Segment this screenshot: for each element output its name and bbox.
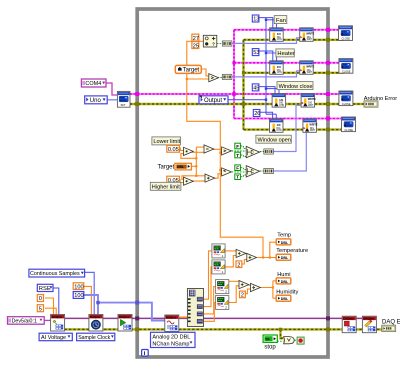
svg-text:26: 26 — [254, 111, 260, 117]
svg-text:5: 5 — [39, 306, 42, 312]
LINX set dig channel row1 — [270, 28, 284, 42]
tunnel: samples left wall — [135, 301, 139, 305]
junction: olive main tap — [242, 102, 246, 106]
LINX set dig channel row2 — [270, 61, 284, 75]
wire: continuous samples to timing (blue) — [85, 272, 95, 314]
junction: blue output net dots — [265, 19, 267, 21]
dig channel constant 45 — [252, 84, 259, 92]
tunnel: task left wall — [135, 316, 139, 320]
LINX set dig channel row4 — [270, 119, 284, 133]
wire: DAQmx task chain (purple) — [65, 317, 363, 319]
DAQmx read — [165, 315, 179, 332]
svg-text:DAQ Er: DAQ Er — [382, 319, 400, 325]
target control terminal — [175, 65, 201, 73]
wire: LINX resource main (magenta) — [130, 93, 341, 95]
tunnels: magenta right wall rows — [326, 28, 330, 121]
wire: temperature result to indicator (orange) — [258, 257, 277, 259]
less-than comparator — [209, 74, 219, 82]
wire: DAQ error chain bottom (olive) — [65, 328, 382, 330]
DAQmx timing — [89, 315, 103, 332]
wire: read 2d data to index array (orange) — [179, 316, 187, 318]
wire: humidity result (orange) — [260, 281, 276, 298]
sensor convert 1 — [212, 244, 225, 258]
dig channel constant 53 — [252, 49, 259, 57]
junction: orange dots on target net — [186, 78, 274, 289]
wire: constant 26 to dig4 (blue) — [260, 112, 273, 119]
combo AI Voltage — [39, 333, 72, 341]
wire: LINX error vertical distribution (olive) — [242, 40, 244, 130]
wire: select1 to bool3 (green) — [260, 151, 264, 153]
indicator DAQ Error — [382, 325, 396, 331]
wire: LINX error row4 (olive) — [244, 128, 347, 130]
svg-text:0: 0 — [39, 296, 42, 302]
DAQmx clear — [362, 316, 376, 333]
numeric constant 100 samples — [73, 292, 84, 300]
svg-text:Window open: Window open — [258, 137, 291, 143]
svg-text:RSE: RSE — [39, 286, 51, 292]
wire: F2 to select2 (green) — [241, 168, 247, 170]
LINX set dig channel row3 — [272, 94, 286, 108]
wire: 100 samples to timing and read (lavender) — [83, 295, 165, 321]
wire: target to multiply1 (orange) — [181, 154, 196, 159]
wire: LINX error main (olive) — [130, 103, 340, 105]
wire: temperature branch to compare3 (orange) — [220, 152, 221, 154]
add sensors 3+4 — [239, 281, 249, 289]
svg-text:Window close: Window close — [279, 84, 313, 90]
label Fan — [274, 16, 287, 24]
LINX write row1 — [300, 28, 315, 42]
wire: temperature feedback up to comparisons (orange) — [187, 41, 263, 257]
wire: LINX resource row4 window-open (magenta) — [234, 118, 346, 120]
LINX close row1 — [339, 26, 353, 41]
svg-text:25: 25 — [193, 43, 199, 49]
wire: stop button to or gate (green) — [277, 340, 283, 342]
wire: target control to less-than (orange) — [201, 69, 209, 76]
wire: LINX error row1 (olive) — [244, 39, 345, 41]
numeric constant 0.05 upper — [167, 145, 180, 153]
tunnel: linx resource left wall — [135, 92, 139, 96]
wire: sensor4 to add2 (orange) — [229, 286, 239, 303]
subtract2 — [204, 145, 214, 153]
DAQmx stop — [342, 316, 356, 333]
index array — [187, 289, 203, 327]
svg-text:Heater: Heater — [277, 51, 294, 57]
loop iteration terminal — [142, 350, 149, 358]
tunnel: task right wall — [326, 316, 330, 320]
combo Output — [199, 95, 229, 104]
wire: in-range to bool1 (green) — [217, 42, 223, 44]
wire: bool1 to write1 (lavender) — [231, 38, 300, 44]
wire: target to multiply4 (orange) — [182, 176, 196, 180]
wire: target distribution vertical (orange) — [195, 147, 197, 176]
LINX close row3 — [339, 91, 353, 106]
wire: add2 to divide2 (orange) — [249, 284, 251, 286]
numeric constant 2 temperature — [236, 261, 242, 269]
junction: olive row2 tap — [242, 71, 245, 74]
wire: Dev5/ai0:1 to create channel (dark magenta) — [44, 319, 50, 321]
wire: multiply1 to subtract2 (orange) — [192, 151, 204, 153]
label Lower limit — [152, 137, 181, 145]
svg-text:NChan NSamp: NChan NSamp — [152, 341, 189, 347]
wire: index out1 to sensor1 (orange) — [204, 251, 212, 299]
wire: constant 53 to dig2 (blue) — [258, 51, 273, 61]
wire: index out2 to sensor2 (orange) — [204, 267, 212, 307]
indicator Arduino Error — [364, 101, 378, 107]
numeric constant 27 — [192, 34, 199, 42]
combo COM4 (VISA resource) — [81, 79, 106, 87]
compare3 greater-equal — [222, 147, 232, 155]
numeric constant 100 rate — [73, 283, 84, 291]
bool-to-num 4 — [264, 168, 274, 173]
boolean constant T2 — [235, 174, 241, 180]
numeric constant 5 — [37, 305, 43, 313]
wire: 100 rate to timing (orange) — [83, 286, 91, 314]
label Higher limit — [150, 182, 181, 190]
LINX close row2 — [339, 59, 353, 74]
svg-text:Continuous Samples: Continuous Samples — [30, 271, 80, 277]
numeric constant 25 — [192, 42, 199, 50]
wire: multiply4 to add5 (orange) — [192, 180, 205, 182]
svg-text:Sample Clock: Sample Clock — [78, 335, 110, 341]
svg-text:Output: Output — [204, 98, 222, 104]
wire: bool4 to write4 (lavender) — [273, 132, 306, 171]
wire: bool2 to write2 (lavender) — [231, 71, 300, 77]
numeric constant 0 — [37, 295, 43, 303]
label Window open — [256, 135, 291, 143]
svg-text:Temperature: Temperature — [276, 248, 308, 254]
wire: constant 2b to divide2 (orange) — [244, 289, 250, 294]
wire: temperature branch to compare6 (orange) — [220, 169, 221, 171]
junction: magenta row2 tap — [232, 61, 235, 64]
wire: output type to dig channels (blue) — [228, 18, 279, 119]
svg-text:Analog 2D DBL: Analog 2D DBL — [152, 335, 190, 341]
indicator Temp — [276, 239, 291, 245]
svg-text:2: 2 — [241, 293, 244, 299]
add5 — [205, 174, 215, 182]
wire: close3 error to Arduino Error indicator (olive) — [353, 103, 364, 105]
svg-text:53: 53 — [253, 50, 259, 56]
wire: LINX resource vertical distribution (magenta) — [233, 30, 235, 119]
label Heater — [276, 49, 295, 57]
wire: constant 2 to divide1 (orange) — [241, 260, 246, 264]
svg-text:stop: stop — [264, 344, 276, 350]
select1 — [246, 146, 259, 157]
svg-text:13: 13 — [253, 17, 259, 23]
divide temperature by 2 — [247, 253, 257, 261]
wire: F1 to select1 (green) — [241, 146, 247, 148]
multiply4 — [184, 177, 194, 185]
junction: samples wire corner — [96, 301, 99, 304]
combo Dev5/ai0:1 — [8, 317, 45, 325]
wire: T2 to select2 (green) — [241, 175, 247, 177]
label Window close — [277, 82, 313, 90]
svg-text:Temp: Temp — [277, 233, 291, 239]
LINX close row4 — [342, 117, 356, 132]
wire: target to subtract2 (orange) — [196, 146, 204, 148]
wire: LINX error row2 (olive) — [244, 72, 345, 74]
tunnel: daq error left wall — [135, 327, 139, 331]
svg-text:0.05: 0.05 — [168, 147, 179, 153]
svg-text:Humi: Humi — [277, 272, 290, 278]
svg-text:COM4: COM4 — [85, 81, 101, 87]
wire: index out4 to sensor4 (orange) — [204, 303, 216, 322]
LINX write row2 — [300, 61, 315, 75]
sensor convert 2 — [212, 260, 225, 274]
svg-text:2: 2 — [237, 262, 240, 268]
wire: COM4 to LINX open (magenta) — [106, 83, 117, 95]
wire: LINX resource row1 fan (magenta) — [234, 29, 344, 31]
svg-text:27: 27 — [193, 36, 199, 42]
wire: Uno to LINX open (lavender) — [107, 99, 117, 101]
boolean constant F2 — [235, 165, 241, 171]
sensor convert 3 — [216, 280, 229, 294]
target local variable — [175, 163, 192, 170]
dig channel constant 26 — [253, 110, 260, 118]
tunnels: olive right wall rows — [326, 38, 330, 132]
tunnel: daq error right wall — [326, 327, 330, 331]
wire: T1 to select1 (green) — [241, 155, 247, 157]
wire: temperature branch to less-than (orange) — [187, 78, 209, 80]
svg-text:AI Voltage: AI Voltage — [41, 335, 66, 341]
svg-text:Uno: Uno — [90, 98, 102, 104]
combo Analog 2D DBL NChan NSamp — [151, 332, 196, 347]
select2 — [246, 166, 259, 177]
compare6 less-equal — [222, 168, 232, 176]
combo Continuous Samples — [29, 269, 85, 277]
stop button terminal — [263, 335, 277, 342]
wire: LINX resource row2 heater (magenta) — [234, 62, 344, 64]
in range and coerce — [203, 35, 217, 47]
wire: subtract2 to compare3 (orange) — [213, 148, 222, 150]
wire: temperature branch to Temp indicator (orange) — [270, 242, 276, 257]
wire: add5 to compare6 (orange) — [214, 174, 221, 178]
wire: constant 13 to dig1 (blue) — [258, 18, 273, 28]
divide humidity by 2 — [251, 283, 261, 291]
wire: index out3 to sensor3 (orange) — [204, 287, 216, 314]
svg-text:Fan: Fan — [276, 18, 286, 24]
svg-text:Lower limit: Lower limit — [153, 139, 180, 145]
indicator Humidity — [276, 295, 291, 301]
loop condition terminal — [297, 337, 304, 344]
indicator Humi — [276, 278, 291, 284]
wire: constant 0 to create (orange) — [45, 298, 54, 315]
svg-text:Higher limit: Higher limit — [152, 184, 180, 190]
wire: compare6 to select2 (green) — [232, 171, 247, 173]
combo RSE — [37, 284, 53, 292]
or gate — [284, 337, 295, 344]
sensor convert 4 — [216, 296, 229, 310]
wire: target local variable link (orange) — [191, 165, 196, 167]
LINX write row4 — [303, 119, 318, 133]
numeric constant 0.05 lower — [167, 176, 180, 184]
LINX open U1 — [117, 91, 130, 107]
wire: compare3 to select1 (green) — [232, 150, 247, 152]
combo Sample Clock — [77, 333, 115, 341]
wire: constant 45 to dig3 (blue) — [258, 87, 275, 94]
wire: constant 5 to create (orange) — [45, 308, 56, 314]
indicator Temperature — [276, 254, 291, 260]
boolean constant T1 — [235, 152, 241, 158]
LINX write row3 — [301, 94, 316, 108]
DAQmx create channel — [51, 315, 65, 332]
DAQmx start — [118, 315, 132, 332]
junction: magenta main tap — [232, 92, 236, 96]
svg-text:Humidity: Humidity — [276, 289, 298, 295]
wire: add1 to divide1 (orange) — [246, 253, 247, 255]
wire: sensor2 to add1 (orange) — [225, 256, 236, 267]
multiply1 — [184, 147, 194, 155]
combo Uno (device type) — [85, 96, 108, 104]
wire: 0.05b to multiply4 (orange) — [178, 180, 183, 183]
svg-text:Dev5/ai0:1: Dev5/ai0:1 — [12, 319, 37, 325]
svg-text:100: 100 — [74, 284, 83, 290]
junction: olive stop branch — [279, 328, 282, 331]
svg-text:DBL: DBL — [177, 165, 184, 169]
dig channel constant 13 — [252, 15, 259, 23]
bool-to-num 3 — [264, 149, 274, 154]
svg-text:Target: Target — [158, 165, 175, 171]
wire: less-than to bool2 (green) — [218, 77, 223, 79]
wire: bool3 to write3 (lavender) — [273, 105, 301, 151]
wire: or gate to loop condition (green) — [294, 339, 297, 341]
wire: sensor1 to add1 (orange) — [225, 250, 236, 252]
svg-text:100: 100 — [74, 293, 83, 299]
wire: sensor3 to add2 (orange) — [229, 280, 239, 282]
wire: target to add5 (orange) — [196, 175, 205, 177]
svg-text:TF: TF — [265, 338, 270, 342]
boolean constant F1 — [235, 143, 241, 149]
wire: 0.05a to multiply1 (orange) — [178, 148, 183, 151]
wire: select2 to bool4 (green) — [260, 170, 264, 172]
tunnel: linx error left wall — [135, 102, 139, 106]
wire: error branch to or gate (olive) — [281, 329, 284, 338]
while-loop frame — [137, 9, 328, 357]
bool-to-num 2 — [222, 74, 232, 79]
bool-to-num 1 — [222, 41, 232, 46]
svg-text:45: 45 — [253, 86, 259, 92]
add sensors 1+2 — [236, 249, 246, 257]
numeric constant 2 humidity — [240, 291, 246, 299]
wire: RSE to create (blue) — [53, 288, 59, 315]
